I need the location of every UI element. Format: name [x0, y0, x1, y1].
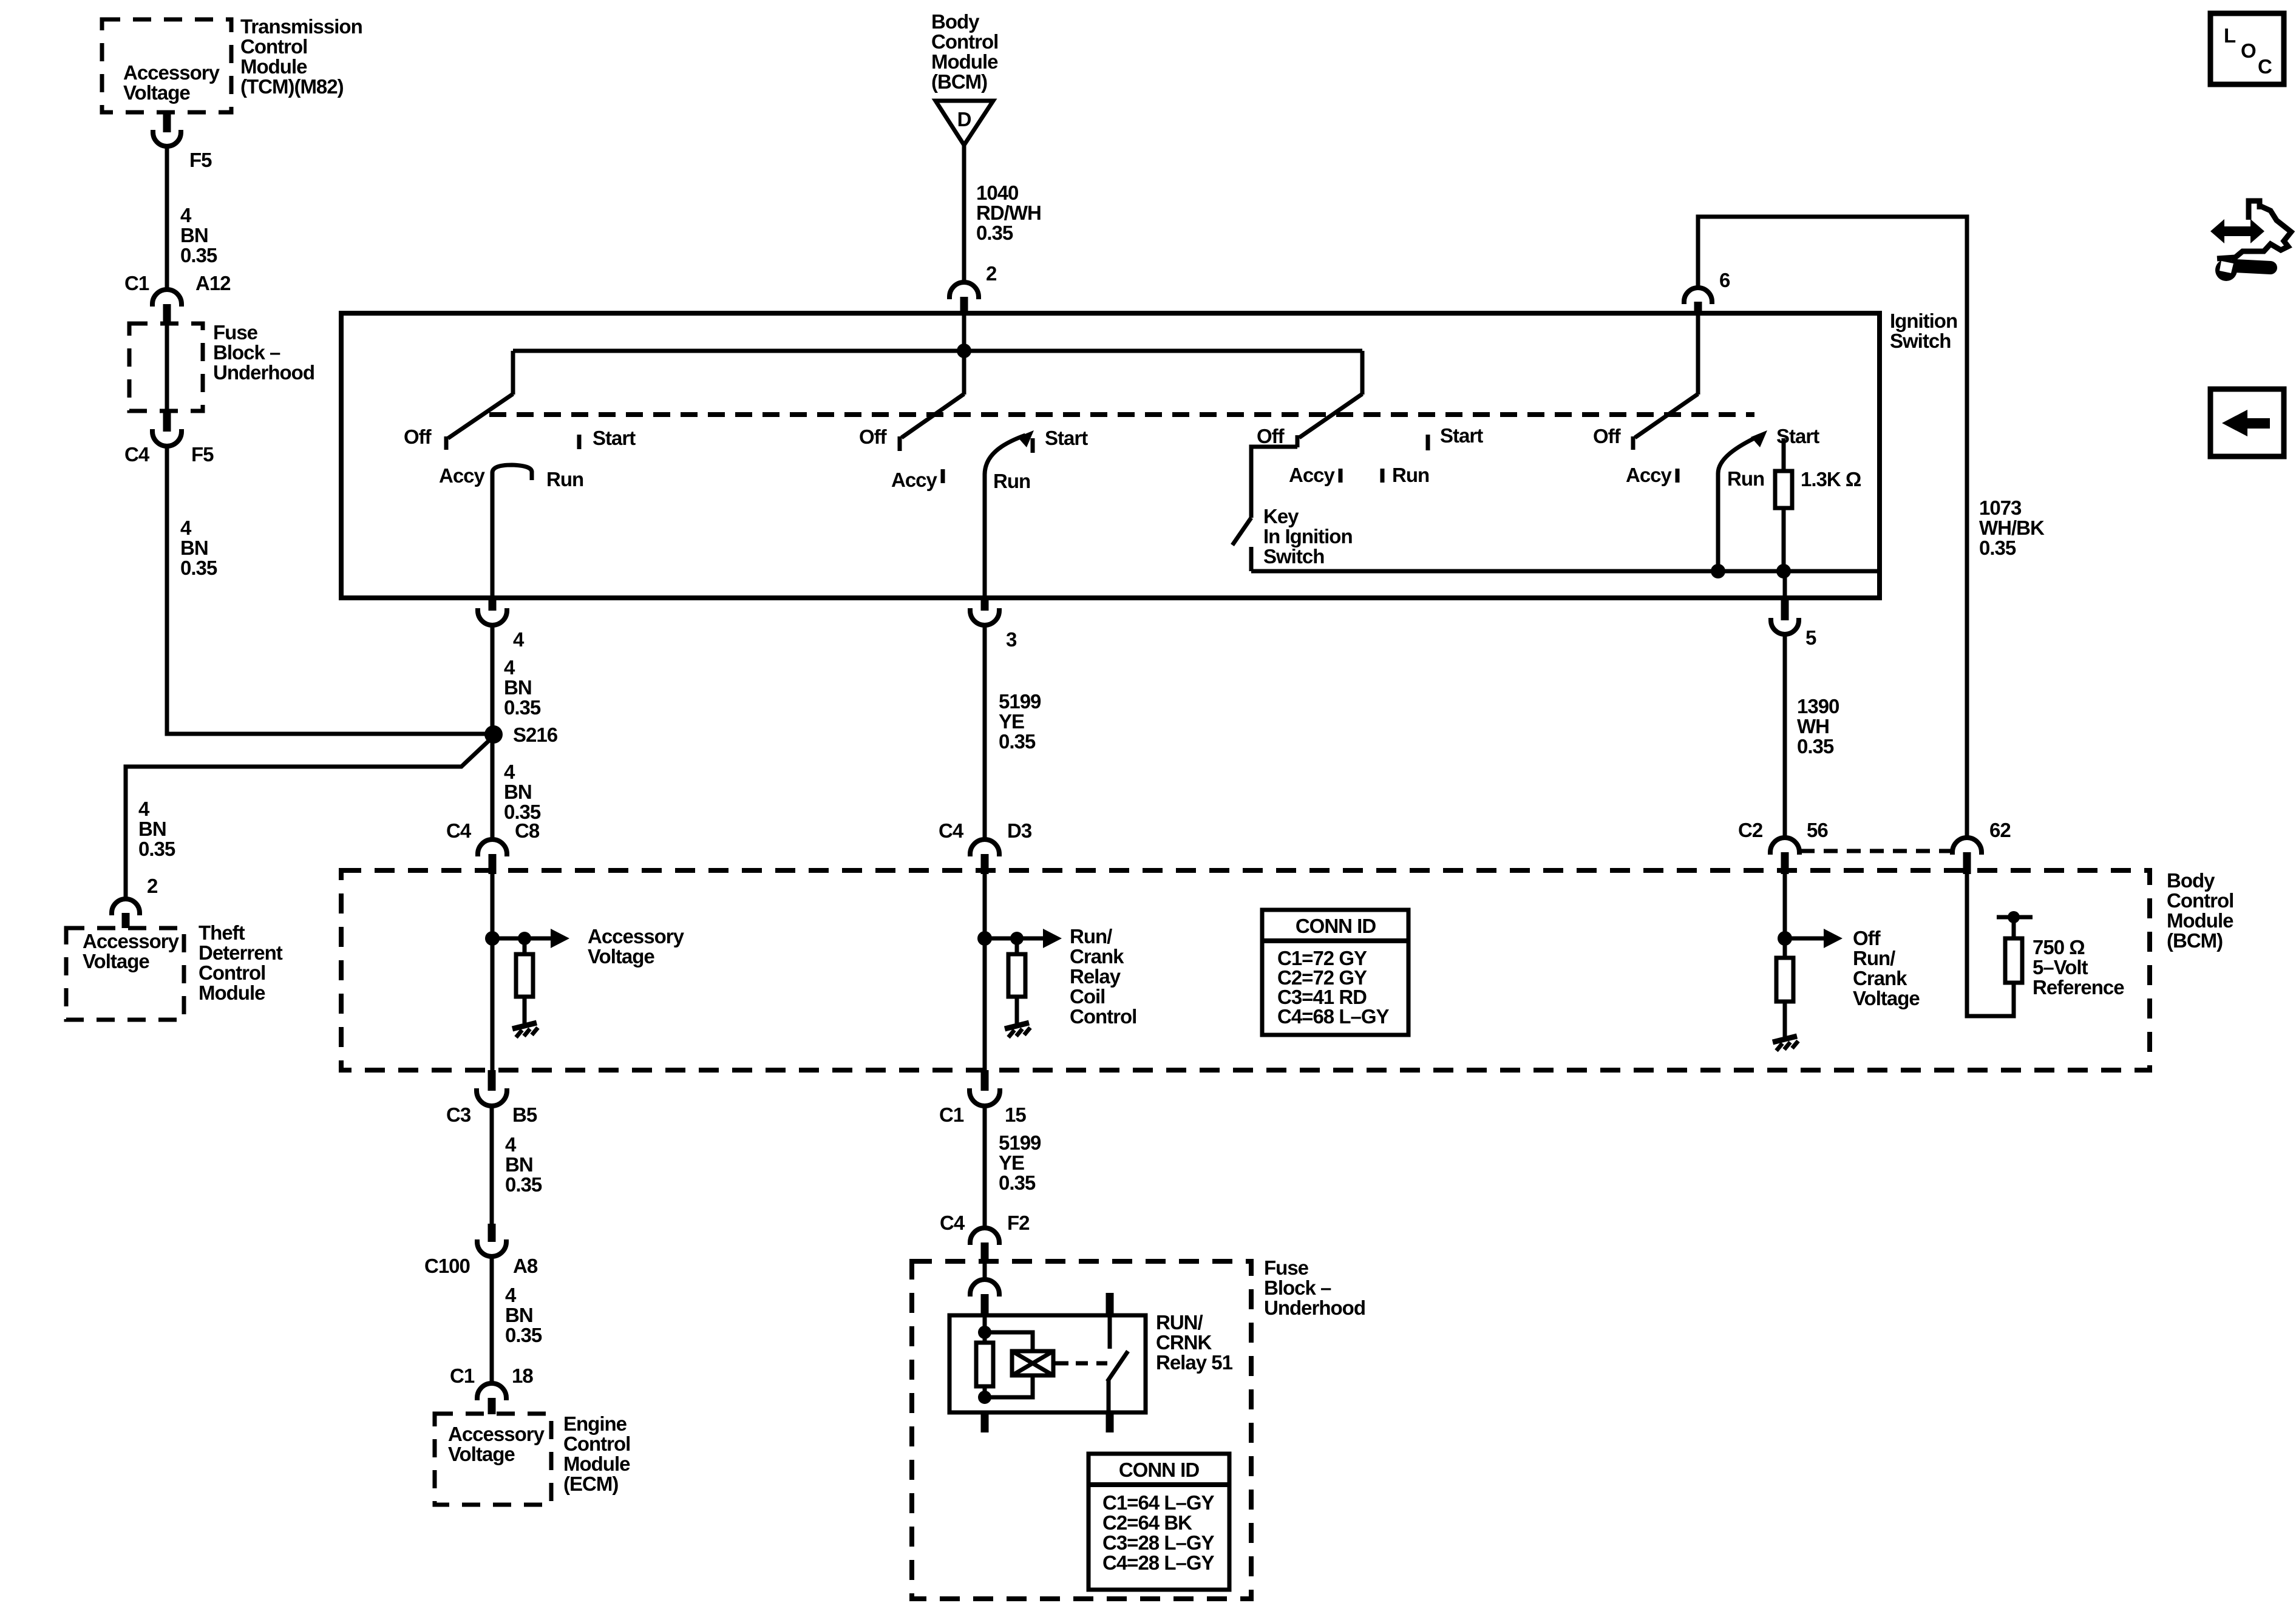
- wiper curve Run-Start section 4: [1718, 436, 1759, 473]
- svg-text:Module: Module: [2167, 909, 2233, 932]
- relay coil feed wire: [983, 1315, 987, 1332]
- svg-text:Start: Start: [593, 427, 636, 449]
- relay junction dot top: [978, 1326, 991, 1339]
- wiper curve Run-Start section 2: [985, 435, 1025, 475]
- svg-text:0.35: 0.35: [180, 244, 217, 266]
- relay actuation dashed link: [1076, 1361, 1107, 1366]
- svg-text:YE: YE: [999, 710, 1024, 733]
- module box: Engine Control Module (dashed): [435, 1414, 551, 1505]
- resistor (BCM pin 56): [1776, 958, 1793, 1002]
- svg-text:C4: C4: [446, 819, 472, 842]
- svg-text:3: 3: [1006, 628, 1017, 651]
- wire 4 BN 0.35 (C3/B5 to C100/A8): [490, 1106, 494, 1224]
- signal arrow: Accessory Voltage: [492, 929, 569, 948]
- svg-text:Engine: Engine: [563, 1412, 627, 1435]
- ground (BCM 2): [1005, 1023, 1030, 1037]
- relay switch lower contact: [1107, 1380, 1111, 1412]
- svg-text:0.35: 0.35: [999, 1171, 1036, 1194]
- relay coil (box with X): [1012, 1351, 1053, 1375]
- svg-text:Control: Control: [2167, 889, 2233, 912]
- svg-text:Accessory: Accessory: [83, 930, 180, 952]
- wire 5199 YE 0.35 (pin 3 to C4/D3): [983, 625, 987, 839]
- svg-text:Underhood: Underhood: [1264, 1297, 1365, 1319]
- key switch lower contact: [1249, 547, 1254, 571]
- module box: Theft Deterrent Control Module (dashed): [66, 928, 184, 1020]
- wire: bus junction down to box edge (pin 5): [1783, 571, 1787, 600]
- connector pin 5 stub: [1781, 598, 1789, 620]
- svg-text:Voltage: Voltage: [448, 1443, 515, 1465]
- switch blade section 2 (to Off): [902, 394, 964, 438]
- svg-text:L: L: [2224, 24, 2236, 47]
- label 5199 YE 0.35 (pin 3 wire): [999, 690, 1041, 753]
- svg-text:Accy: Accy: [891, 469, 938, 491]
- Off contact tick section 1: [444, 436, 449, 450]
- svg-text:O: O: [2241, 39, 2256, 62]
- connector C4/C8 arch: [478, 839, 507, 856]
- wire inside BCM (D3 branch): [983, 873, 987, 1070]
- connector 62 stub: [1963, 852, 1971, 874]
- svg-text:Run: Run: [546, 468, 583, 490]
- svg-text:1040: 1040: [976, 181, 1018, 204]
- svg-text:Control: Control: [1070, 1005, 1136, 1028]
- svg-text:D3: D3: [1007, 819, 1032, 842]
- relay coil bottom pin stub: [981, 1412, 989, 1432]
- wire 5199 YE 0.35 (C1/15 to C4/F2): [983, 1106, 987, 1228]
- svg-text:C3: C3: [446, 1103, 471, 1126]
- svg-text:F5: F5: [191, 443, 214, 466]
- connector pin 3 cup: [970, 608, 999, 625]
- label 4 BN 0.35 (A8 wire): [505, 1284, 542, 1346]
- relay resistor bottom wire: [983, 1386, 987, 1397]
- svg-text:Control: Control: [240, 35, 307, 58]
- svg-text:Voltage: Voltage: [83, 950, 149, 972]
- svg-text:4: 4: [138, 798, 150, 820]
- label: Accessory Voltage (theft box): [83, 930, 180, 972]
- wire inside BCM (pin 56 branch): [1783, 873, 1787, 958]
- label: Accessory Voltage (inside TCM box): [123, 61, 220, 104]
- wire: key-in-ignition switch link: [1251, 447, 1297, 518]
- connector C1/18 arch: [477, 1383, 506, 1400]
- wire 4 BN 0.35 (C4/F5 down and right to splice S216): [167, 446, 489, 734]
- svg-text:0.35: 0.35: [505, 1173, 542, 1196]
- wire 1390 WH 0.35 (pin 5 to C2/56): [1783, 634, 1787, 838]
- Start contact tick section 3: [1426, 435, 1430, 450]
- signal arrow: Off Run/Crank Voltage: [1785, 929, 1843, 948]
- connector pin 6 stub: [1694, 302, 1702, 314]
- svg-text:C8: C8: [515, 819, 540, 842]
- Start contact tick section 2: [1031, 438, 1035, 453]
- svg-text:BN: BN: [505, 1153, 533, 1176]
- module box: Fuse Block - Underhood (dashed): [912, 1261, 1251, 1599]
- connector pin 2 arch: [949, 282, 979, 299]
- svg-text:5–Volt: 5–Volt: [2033, 956, 2088, 978]
- svg-text:C4: C4: [939, 819, 964, 842]
- Start contact tick section 1: [577, 435, 582, 449]
- connector C100/A8 cup: [477, 1239, 506, 1256]
- icon: back-arrow box: [2210, 389, 2284, 456]
- svg-text:0.35: 0.35: [999, 730, 1036, 753]
- component box: Ignition Switch: [341, 313, 1880, 598]
- svg-text:Relay: Relay: [1070, 965, 1121, 988]
- svg-text:WH/BK: WH/BK: [1979, 517, 2045, 539]
- wire inside BCM (C8 branch): [491, 873, 495, 1070]
- relay switch bottom pin stub: [1106, 1412, 1114, 1432]
- label 4 BN 0.35 (left long wire): [180, 517, 217, 579]
- wire 1040 RD/WH 0.35 (triangle to pin 2): [962, 145, 966, 282]
- module box: Transmission Control Module (dashed): [102, 19, 231, 112]
- wire: section 2 output (Run to pin 3): [983, 473, 987, 598]
- svg-text:Accessory: Accessory: [123, 61, 220, 84]
- svg-text:Voltage: Voltage: [123, 81, 190, 104]
- connector C2/56 arch: [1770, 838, 1799, 855]
- svg-text:A12: A12: [195, 272, 231, 294]
- svg-text:5199: 5199: [999, 690, 1041, 713]
- svg-text:18: 18: [512, 1364, 533, 1387]
- ground (BCM 56): [1773, 1036, 1798, 1051]
- junction dot Run/bus: [1711, 564, 1725, 578]
- connector C4/F5 cup: [152, 429, 182, 446]
- connector 62 arch: [1952, 838, 1982, 855]
- svg-text:Coil: Coil: [1070, 985, 1105, 1008]
- connector pin 4 cup: [478, 608, 507, 625]
- table: CONN ID (fuse block) outer box: [1089, 1454, 1229, 1590]
- svg-text:Accy: Accy: [1289, 464, 1336, 486]
- svg-text:4: 4: [505, 1284, 517, 1306]
- svg-text:0.35: 0.35: [505, 1324, 542, 1346]
- svg-text:C1: C1: [450, 1364, 475, 1387]
- svg-text:Crank: Crank: [1070, 945, 1124, 968]
- icon: back arrow (left): [2222, 410, 2270, 436]
- wire 4 BN 0.35 (pin 4 to splice S216): [491, 625, 495, 734]
- svg-text:(ECM): (ECM): [563, 1473, 618, 1495]
- svg-text:C1: C1: [124, 272, 149, 294]
- svg-text:Switch: Switch: [1263, 545, 1324, 568]
- svg-text:Run: Run: [1392, 464, 1429, 486]
- connector pin 6 arch: [1684, 288, 1712, 304]
- junction dot resistor branch 2: [1010, 932, 1024, 945]
- label: Fuse Block - Underhood: [213, 321, 314, 384]
- junction dot on 5-volt rail: [2008, 911, 2020, 923]
- switch blade section 3 (to Off): [1299, 394, 1362, 438]
- svg-text:C4=68 L–GY: C4=68 L–GY: [1277, 1005, 1390, 1028]
- svg-text:Underhood: Underhood: [213, 361, 314, 384]
- svg-text:0.35: 0.35: [1797, 735, 1834, 758]
- svg-text:BN: BN: [504, 676, 532, 699]
- wire: section 2 riser: [962, 351, 966, 395]
- label: RUN/CRNK Relay 51: [1156, 1311, 1233, 1374]
- connector C1/A12 stub: [163, 304, 171, 324]
- svg-text:Accy: Accy: [439, 464, 486, 487]
- svg-text:2: 2: [147, 875, 158, 897]
- 5-volt reference rail: [1997, 915, 2033, 920]
- svg-text:(BCM): (BCM): [2167, 929, 2223, 952]
- wire 1073 loop: pin 6 up, across and down to pin 62: [1698, 217, 1967, 838]
- svg-text:4: 4: [504, 761, 515, 783]
- switch blade section 4 (to Off): [1635, 394, 1698, 438]
- junction dot Run/Crank tap: [977, 931, 992, 946]
- ground (BCM 1): [512, 1023, 538, 1037]
- connector pin 3 stub: [981, 598, 989, 611]
- svg-text:F2: F2: [1007, 1212, 1030, 1234]
- svg-text:Voltage: Voltage: [1853, 987, 1920, 1009]
- svg-text:CRNK: CRNK: [1156, 1331, 1212, 1354]
- table: CONN ID (fuse block) header rule: [1089, 1482, 1229, 1487]
- svg-text:Off: Off: [1853, 927, 1881, 949]
- svg-text:Accessory: Accessory: [448, 1423, 545, 1445]
- svg-text:Module: Module: [931, 50, 998, 73]
- svg-text:Body: Body: [2167, 869, 2215, 892]
- svg-text:Run/: Run/: [1853, 947, 1895, 969]
- svg-text:(TCM)(M82): (TCM)(M82): [240, 75, 344, 98]
- svg-text:1073: 1073: [1979, 497, 2022, 519]
- icon: double-headed arrow (connector end view): [2210, 219, 2264, 243]
- svg-text:4: 4: [504, 656, 515, 679]
- table: CONN ID (BCM) header rule: [1262, 938, 1408, 943]
- table rows: fuse block CONN ID: [1102, 1491, 1215, 1574]
- label: Off Run/Crank Voltage: [1853, 927, 1920, 1009]
- wire rail to 750 resistor: [2012, 917, 2016, 938]
- svg-text:CONN ID: CONN ID: [1119, 1459, 1200, 1481]
- table: CONN ID (BCM) outer box: [1262, 910, 1408, 1035]
- svg-text:Relay 51: Relay 51: [1156, 1351, 1233, 1374]
- junction dot resistor/bus: [1776, 564, 1791, 578]
- svg-text:B5: B5: [512, 1103, 537, 1126]
- svg-text:F5: F5: [189, 149, 212, 171]
- relay resistor top wire: [983, 1332, 987, 1343]
- connector C100/A8 stub: [488, 1224, 496, 1242]
- svg-text:C4: C4: [940, 1212, 965, 1234]
- wiper arc Accy-Run and output wire section 1: [492, 465, 532, 598]
- svg-text:6: 6: [1719, 269, 1730, 291]
- wire 4 BN 0.35 (S216 down to C4/C8): [491, 734, 495, 839]
- connector C4/D3 stub: [981, 854, 989, 874]
- label: Ignition Switch: [1890, 310, 1957, 352]
- icon: connector body outline: [2249, 201, 2260, 220]
- signal arrow: Run/Crank Relay Coil Control: [985, 929, 1062, 948]
- svg-text:S216: S216: [513, 724, 558, 746]
- svg-text:Theft: Theft: [199, 921, 245, 944]
- svg-text:56: 56: [1807, 819, 1828, 841]
- connector pin 4 stub: [489, 598, 497, 611]
- svg-text:BN: BN: [180, 224, 208, 246]
- svg-text:0.35: 0.35: [976, 222, 1013, 244]
- BCM output triangle connector D: [936, 101, 993, 145]
- wire 4 BN 0.35 (C100/A8 to ECM C1/18): [490, 1256, 494, 1383]
- wire: section 4 riser from pin 6: [1696, 314, 1700, 395]
- junction dot Accessory Voltage tap: [485, 931, 500, 946]
- svg-text:Module: Module: [563, 1453, 630, 1475]
- label: 750 ohm 5-Volt Reference: [2033, 936, 2124, 998]
- connector C1/15 stub: [981, 1070, 989, 1091]
- wire resistor 1 to ground: [523, 997, 527, 1023]
- label: Key In Ignition Switch: [1263, 505, 1353, 568]
- svg-text:5199: 5199: [999, 1131, 1041, 1154]
- dashed link between pins 56 and 62: [1801, 849, 1951, 853]
- connector C1/15 cup: [970, 1088, 1000, 1106]
- svg-text:Fuse: Fuse: [213, 321, 258, 344]
- relay switch blade: [1107, 1351, 1128, 1381]
- connector C4/F5 stub: [163, 411, 171, 432]
- svg-text:750 Ω: 750 Ω: [2033, 936, 2085, 958]
- connector pin 5 cup: [1771, 618, 1799, 634]
- svg-text:Off: Off: [1257, 425, 1285, 447]
- svg-text:A8: A8: [513, 1255, 538, 1277]
- svg-text:C4: C4: [124, 443, 150, 466]
- component box: Fuse Block - Underhood (small dashed): [129, 324, 203, 411]
- connector F5 (TCM) pin stub: [163, 112, 171, 132]
- svg-text:WH: WH: [1797, 715, 1829, 737]
- label: Accessory Voltage (ECM box): [448, 1423, 545, 1465]
- svg-text:BN: BN: [138, 818, 166, 840]
- wire S216 branch to Theft Deterrent (diagonal then left): [126, 736, 494, 899]
- junction dot Off Run/Crank tap: [1778, 931, 1792, 946]
- svg-text:RD/WH: RD/WH: [976, 202, 1041, 224]
- svg-text:Body: Body: [931, 10, 980, 33]
- connector C1/18 stub: [488, 1398, 496, 1414]
- connector pin 2 (theft) arch: [112, 899, 140, 915]
- svg-text:1390: 1390: [1797, 695, 1839, 717]
- svg-text:62: 62: [1989, 819, 2011, 841]
- Accy contact tick section 2: [941, 469, 945, 483]
- wire resistor 2 to ground: [1015, 997, 1019, 1023]
- connector C3/B5 stub: [488, 1070, 496, 1091]
- resistor 1.3K inside ignition switch: [1775, 471, 1792, 508]
- connector pin 2 stub: [960, 297, 968, 314]
- connector C4/D3 arch: [970, 839, 999, 856]
- label 4 BN 0.35 (B5 wire): [505, 1133, 542, 1196]
- label 4 BN 0.35 (theft branch): [138, 798, 175, 860]
- svg-text:BN: BN: [180, 537, 208, 559]
- label: Run/Crank Relay Coil Control: [1070, 925, 1136, 1028]
- Off contact tick section 4: [1631, 436, 1635, 450]
- svg-text:4: 4: [180, 517, 192, 539]
- svg-text:Run: Run: [1727, 467, 1764, 490]
- svg-text:Deterrent: Deterrent: [199, 941, 283, 964]
- wiper arrowhead section 2: [1017, 430, 1034, 447]
- wire pin 62 to 750 resistor bottom: [1967, 873, 2014, 1016]
- resistor 750 ohm: [2005, 938, 2022, 983]
- svg-text:Crank: Crank: [1853, 967, 1907, 989]
- svg-text:Module: Module: [240, 55, 307, 78]
- svg-text:Off: Off: [404, 425, 432, 448]
- svg-text:Reference: Reference: [2033, 976, 2124, 998]
- svg-text:C2=64 BK: C2=64 BK: [1102, 1511, 1192, 1534]
- connector C4/F2 arch: [970, 1228, 999, 1245]
- label: Body Control Module (BCM) top: [931, 10, 998, 93]
- resistor (BCM pull-down 1): [516, 954, 533, 997]
- label: Accessory Voltage (BCM): [588, 925, 685, 968]
- svg-text:Control: Control: [931, 30, 998, 53]
- relay internal resistor: [976, 1343, 993, 1386]
- wire resistor 56 to ground: [1783, 1002, 1787, 1037]
- relay coil to armature stub: [1053, 1361, 1068, 1366]
- label: Transmission Control Module (TCM)(M82): [240, 15, 362, 98]
- svg-text:Off: Off: [1593, 425, 1622, 447]
- svg-text:C100: C100: [424, 1255, 470, 1277]
- relay outline box: RUN/CRNK Relay 51: [949, 1315, 1146, 1412]
- wire to resistor branch 1: [523, 938, 527, 954]
- label: Engine Control Module (ECM): [563, 1412, 630, 1495]
- label 4 BN 0.35 (below S216): [504, 761, 541, 823]
- junction dot on distribution bus: [957, 344, 971, 358]
- svg-text:0.35: 0.35: [138, 838, 175, 860]
- svg-text:D: D: [957, 108, 971, 131]
- svg-text:BN: BN: [504, 781, 532, 803]
- svg-text:0.35: 0.35: [180, 557, 217, 579]
- module box: Body Control Module (dashed): [341, 870, 2150, 1070]
- svg-text:0.35: 0.35: [1979, 537, 2016, 559]
- svg-text:C1=64 L–GY: C1=64 L–GY: [1102, 1491, 1215, 1514]
- gang dashed linkage line: [489, 412, 1754, 417]
- svg-text:Start: Start: [1440, 424, 1483, 447]
- svg-text:Fuse: Fuse: [1264, 1256, 1309, 1279]
- label 5199 YE 0.35 (lower): [999, 1131, 1041, 1194]
- svg-text:Ignition: Ignition: [1890, 310, 1957, 332]
- wire 4 BN 0.35 (TCM F5 to C1/A12): [165, 146, 169, 290]
- Run contact tick section 3: [1381, 469, 1385, 483]
- splice S216: [484, 725, 503, 744]
- Off contact tick section 2: [898, 436, 902, 451]
- label 1390 WH 0.35: [1797, 695, 1839, 758]
- label: Body Control Module (BCM) right: [2167, 869, 2233, 952]
- svg-text:4: 4: [513, 628, 525, 651]
- wire inside fuse block to relay connector: [983, 1261, 987, 1281]
- svg-text:2: 2: [986, 262, 997, 285]
- svg-text:CONN ID: CONN ID: [1296, 915, 1376, 937]
- relay coil pin stub: [981, 1294, 989, 1315]
- relay coil pin arch: [970, 1280, 999, 1297]
- svg-text:Control: Control: [563, 1432, 630, 1455]
- svg-text:5: 5: [1805, 626, 1816, 649]
- resistor (BCM pull-down 2): [1008, 954, 1025, 997]
- wiper arrowhead section 4: [1751, 430, 1767, 447]
- svg-text:Control: Control: [199, 961, 265, 984]
- relay junction dot bottom: [978, 1391, 991, 1404]
- switch blade section 1 (to Off): [448, 394, 513, 438]
- wire: section 3 feed drop: [1360, 351, 1365, 395]
- icon: LOC letters: [2224, 24, 2272, 78]
- label 4 BN 0.35 (pin 4 wire): [504, 656, 541, 719]
- label 1040 RD/WH 0.35: [976, 181, 1041, 244]
- svg-text:In Ignition: In Ignition: [1263, 525, 1353, 547]
- wire: internal bottom bus (key switch to pin 5 branch): [1251, 569, 1880, 574]
- svg-text:C: C: [2258, 55, 2272, 78]
- connector pin 2 (theft) stub: [122, 913, 130, 928]
- wire (through fuse block): [165, 324, 169, 411]
- svg-text:Key: Key: [1263, 505, 1299, 527]
- svg-text:0.35: 0.35: [504, 696, 541, 719]
- svg-text:Accessory: Accessory: [588, 925, 685, 947]
- wire: pin 2 feed inside box: [962, 314, 966, 351]
- svg-text:(BCM): (BCM): [931, 70, 987, 93]
- Off contact tick section 3: [1296, 435, 1300, 447]
- svg-text:Transmission: Transmission: [240, 15, 362, 38]
- label 4 BN 0.35 (upper left wire): [180, 204, 217, 266]
- wire: internal distribution bus: [513, 349, 1362, 353]
- svg-text:15: 15: [1005, 1103, 1026, 1126]
- svg-text:Module: Module: [199, 981, 265, 1004]
- svg-text:YE: YE: [999, 1151, 1024, 1174]
- connector C3/B5 cup: [477, 1088, 507, 1106]
- svg-text:Block –: Block –: [1264, 1276, 1331, 1299]
- svg-text:Accy: Accy: [1626, 464, 1673, 486]
- svg-text:C2: C2: [1738, 819, 1763, 841]
- wire: section 1 riser: [511, 351, 515, 395]
- svg-text:BN: BN: [505, 1304, 533, 1326]
- relay switch top pin stub: [1106, 1293, 1114, 1315]
- relay switch upper contact: [1108, 1315, 1112, 1349]
- svg-text:Voltage: Voltage: [588, 945, 654, 968]
